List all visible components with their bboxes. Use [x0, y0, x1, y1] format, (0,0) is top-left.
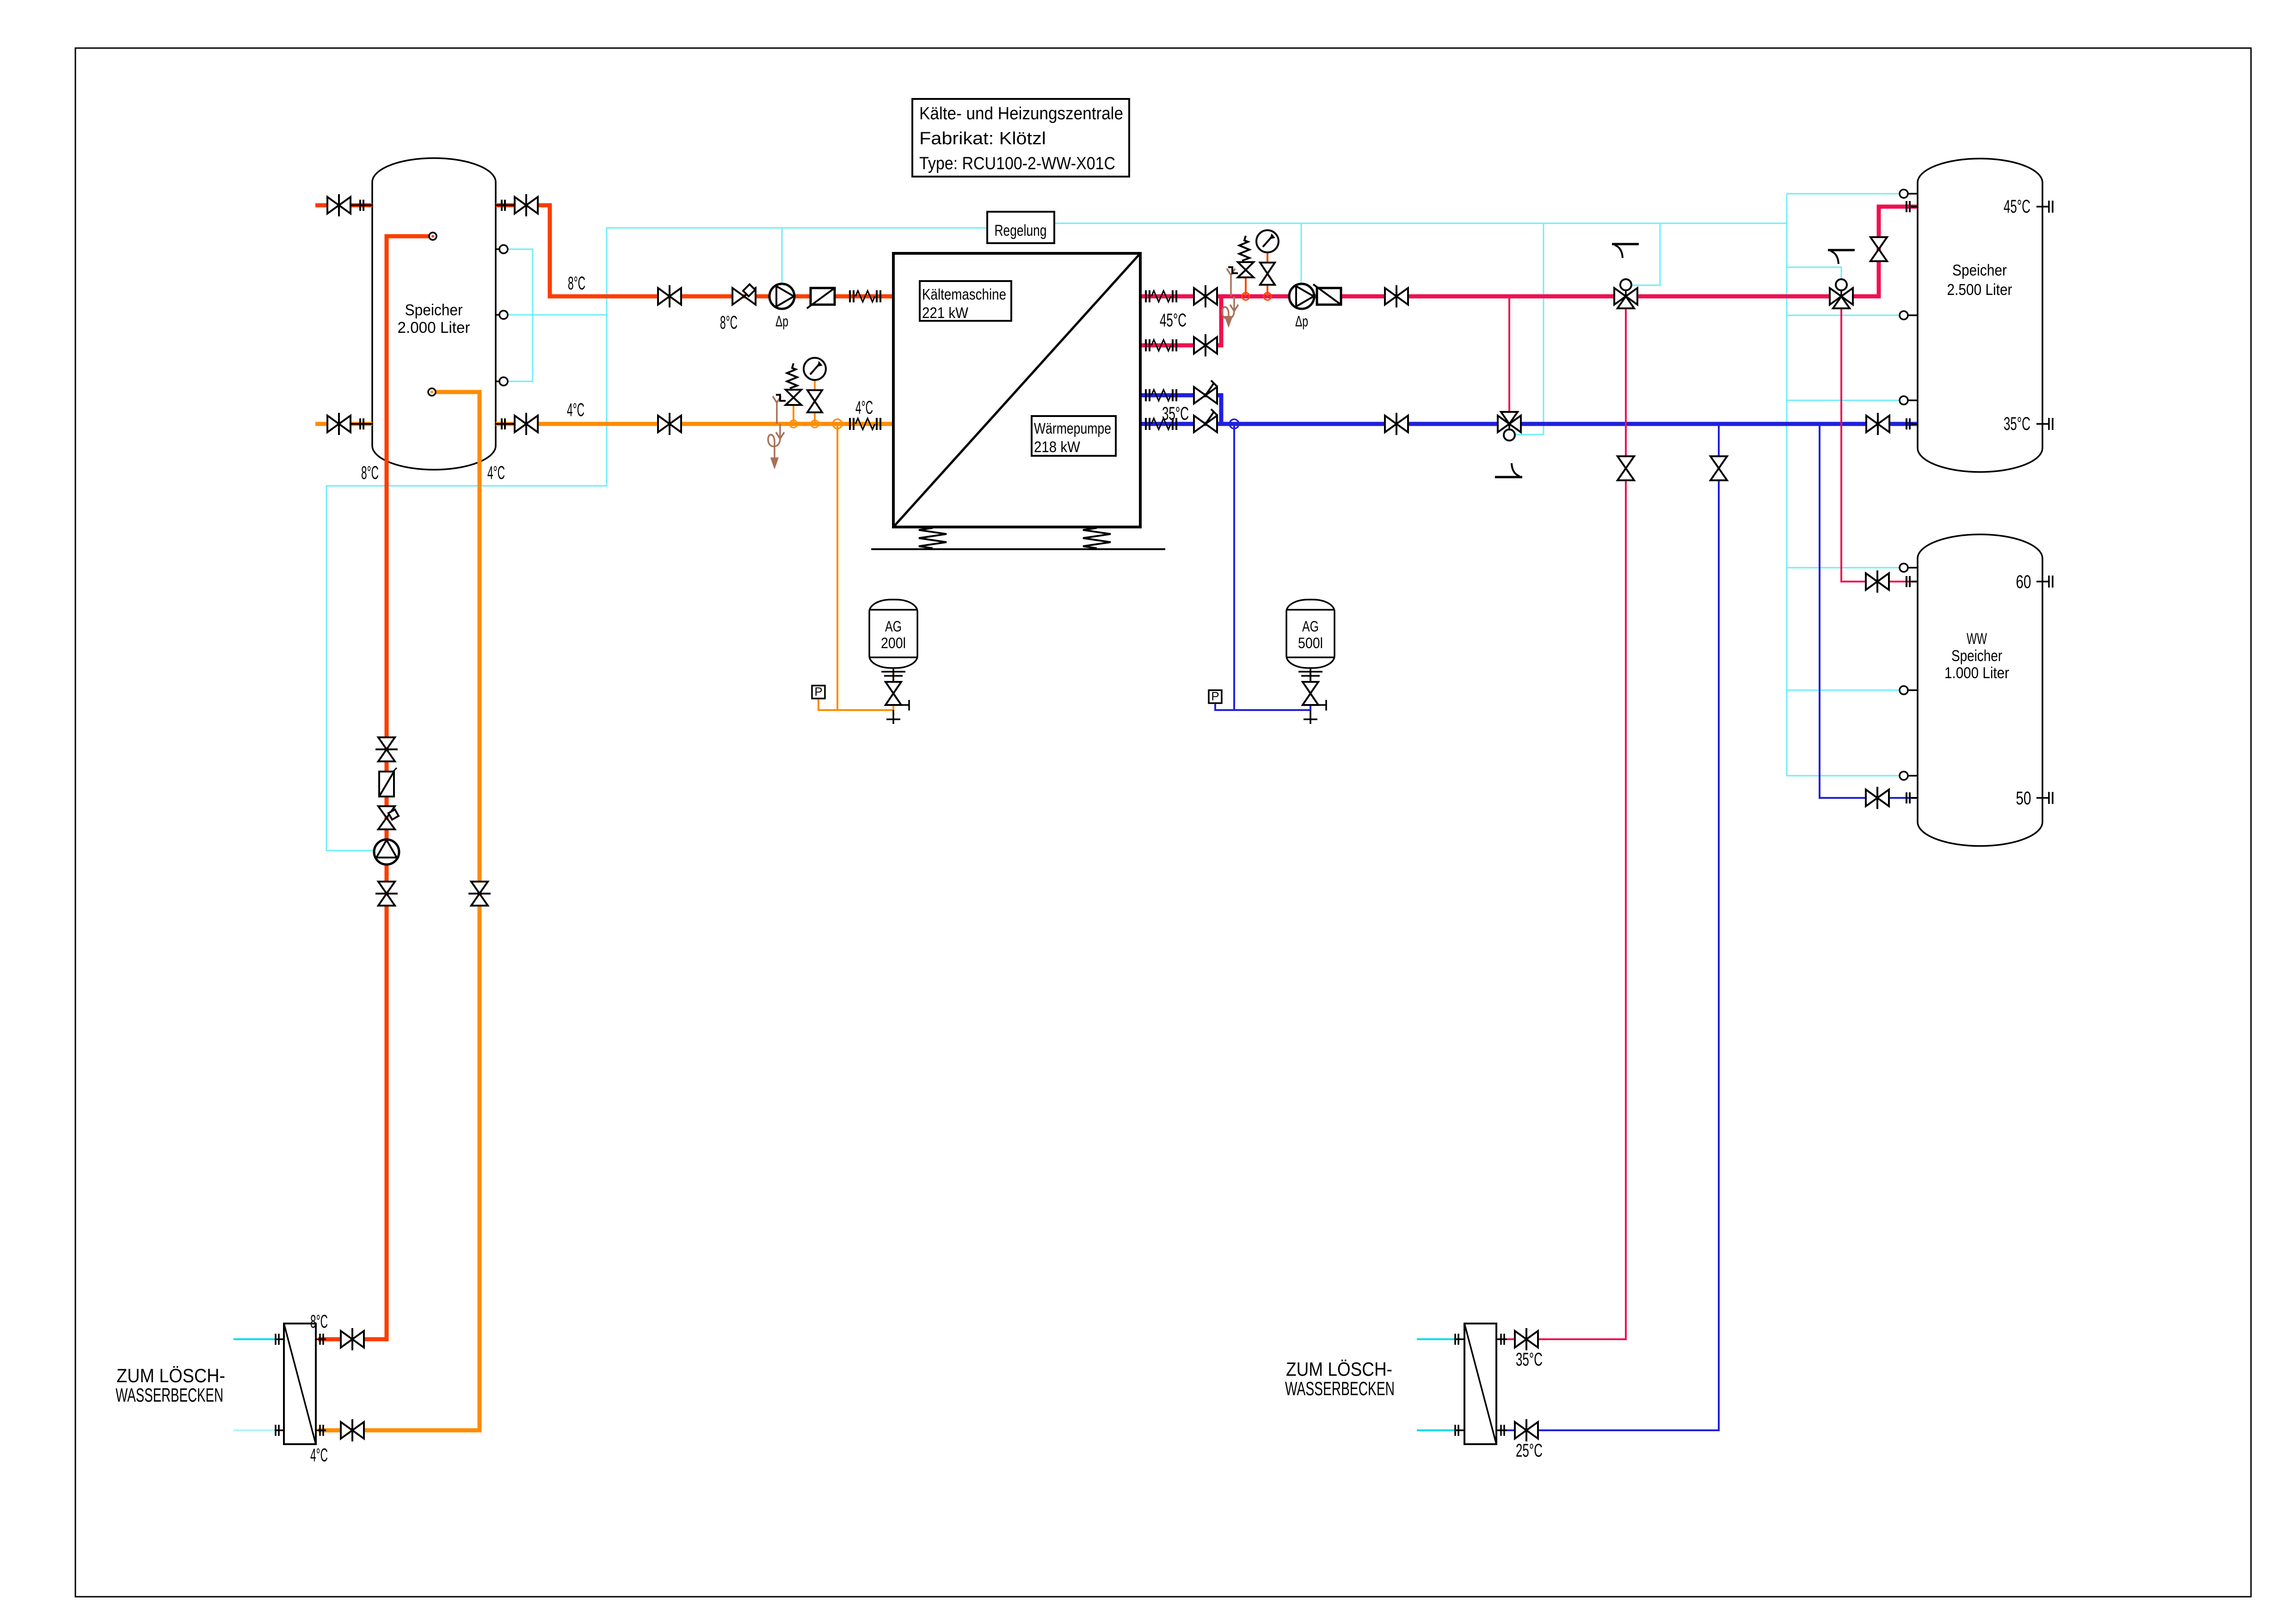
junction node on 4C line at AG200 drop: [833, 419, 842, 429]
svg-text:45°C: 45°C: [2004, 196, 2030, 217]
three-way valve crimson to heat exchanger drop: [1614, 288, 1637, 305]
svg-text:WASSERBECKEN: WASSERBECKEN: [1285, 1378, 1395, 1399]
junction node on blue line at AG500 drop: [1230, 419, 1239, 429]
vertical valve on 4C down pipe: [471, 882, 488, 906]
right HX bottom-right flange: [1496, 1429, 1507, 1431]
pipe 8C stub left of tank1: [315, 203, 372, 208]
control wire: Regelung to right side: [1054, 223, 1787, 224]
safety relief valve on 45C line: [1245, 277, 1247, 296]
valve WW 50 inlet: [1866, 790, 1889, 806]
tank1 sensor top: [496, 248, 508, 250]
svg-text:221 kW: 221 kW: [922, 304, 969, 321]
valve left HX bottom: [341, 1422, 364, 1439]
WW tank sensor bottom: [1900, 775, 1918, 777]
heat exchanger left ZUM LOESCHWASSERBECKEN: [284, 1324, 316, 1444]
svg-text:Speicher: Speicher: [1951, 647, 2002, 665]
stub cyan left heat exchanger bottom: [234, 1429, 282, 1431]
balancing valve on 8C line: [732, 288, 756, 305]
control wire to WW tank bottom sensor: [1787, 775, 1900, 777]
svg-text:8°C: 8°C: [720, 313, 738, 333]
pipe 4C tank1 to chiller: [496, 422, 893, 426]
control wire to tank1 middle sensor: [508, 314, 607, 316]
filter on 8C line: [811, 288, 835, 305]
control wire to tank2 top sensor: [1787, 193, 1900, 195]
vertical filter on 8C down pipe: [379, 772, 394, 797]
pump on 8C line: [769, 284, 794, 309]
AG500 connection break ticks: [1310, 668, 1311, 681]
three-way valve crimson at tank2 riser: [1830, 288, 1853, 305]
valve on 8C line: [658, 288, 681, 305]
flexible connector 8C at chiller: [849, 290, 851, 302]
tank1 internal pipe sensor circle top: [429, 233, 437, 240]
valve with lever 35C top: [1194, 387, 1217, 404]
Regelung control box: [987, 212, 1054, 243]
svg-text:25°C: 25°C: [1516, 1440, 1543, 1461]
left HX top-right flange: [316, 1338, 326, 1340]
right HX top-left flange: [1454, 1338, 1464, 1340]
tank2 35C inlet flange: [1906, 418, 1907, 429]
flexible connector 45C supply: [1145, 290, 1147, 302]
svg-text:4°C: 4°C: [855, 398, 873, 418]
control wire to tank2 bottom sensor: [1787, 400, 1900, 401]
svg-text:WASSERBECKEN: WASSERBECKEN: [116, 1384, 223, 1406]
safety relief valve on 4C line: [793, 405, 794, 424]
svg-text:45°C: 45°C: [1160, 310, 1187, 331]
AG500 drain arm: [1310, 704, 1326, 706]
pipe blue drop to WW tank 50: [1820, 424, 1917, 798]
tank1 sensor middle: [496, 314, 508, 316]
tank1 internal pipe sensor circle bottom: [428, 388, 436, 396]
valve left HX top: [341, 1331, 364, 1348]
stub cyan right heat exchanger bottom: [1417, 1429, 1463, 1431]
svg-text:ZUM LÖSCH-: ZUM LÖSCH-: [117, 1365, 225, 1386]
pipe blue drop to right heat exchanger: [1498, 424, 1719, 1430]
pipe 8C tank1 internal down to heat exchanger: [318, 236, 430, 1339]
svg-text:2.000 Liter: 2.000 Liter: [398, 319, 470, 337]
pipe 35C chiller top port riser: [893, 395, 1221, 424]
vertical valve on 8C down pipe: [378, 737, 395, 761]
tank1 sensor bottom: [496, 380, 508, 382]
right HX bottom-left flange: [1454, 1429, 1464, 1431]
tank2 45C right nozzle: [2036, 206, 2049, 208]
svg-text:218 kW: 218 kW: [1034, 438, 1081, 455]
svg-text:Wärmepumpe: Wärmepumpe: [1034, 420, 1111, 437]
tank body Speicher 2500 Liter: [1918, 159, 2042, 472]
pipe 45C chiller supply to tank2: [893, 207, 1917, 296]
valve on 4C line: [658, 416, 681, 432]
drain funnel on 45C line: [1230, 275, 1232, 296]
svg-text:Regelung: Regelung: [995, 222, 1047, 239]
svg-text:Fabrikat: Klötzl: Fabrikat: Klötzl: [919, 129, 1046, 148]
svg-text:4°C: 4°C: [567, 400, 584, 420]
valve right HX top: [1515, 1331, 1538, 1348]
valve with lever 35C bottom: [1194, 416, 1217, 432]
tank body Speicher 2000 Liter: [372, 158, 496, 470]
svg-text:8°C: 8°C: [310, 1311, 328, 1332]
control wire branch to crimson three-way actuator: [1632, 223, 1660, 285]
pipe 4C tank1 internal down to heat exchanger: [318, 392, 480, 1430]
control wire: tank1 top sensor to bottom sensor: [508, 249, 533, 381]
control wire to WW tank top sensor: [1787, 567, 1900, 569]
junction node gauge stem 4C line: [811, 420, 818, 428]
vertical balancing valve on 8C down pipe: [378, 806, 395, 829]
control wire to WW tank middle sensor: [1787, 690, 1900, 691]
valve 35C at tank2: [1866, 416, 1889, 432]
svg-text:2.500 Liter: 2.500 Liter: [1947, 281, 2012, 299]
left HX top-left flange: [275, 1338, 284, 1340]
tank2 45C inlet flange: [1906, 201, 1907, 212]
vertical pump on 8C down pipe: [374, 840, 399, 864]
pressure sensor P box right: [1209, 690, 1222, 703]
chiller heat pump unit box: [893, 253, 1140, 527]
svg-text:Kältemaschine: Kältemaschine: [922, 286, 1006, 303]
AG200 drain below: [892, 710, 894, 724]
vertical valve on crimson drop: [1617, 456, 1634, 480]
pipe crimson drop to WW tank 60: [1841, 305, 1917, 582]
filter on 45C line: [1317, 288, 1341, 305]
pipe crimson drop to right heat exchanger: [1498, 305, 1626, 1339]
left HX bottom-left flange: [275, 1429, 284, 1431]
pressure gauge on 45C line: [1267, 252, 1268, 296]
pressure sensor P box left: [812, 686, 825, 699]
flexible connector 35C bottom: [1145, 418, 1147, 430]
valve tank1 bottom-right: [496, 423, 515, 425]
valve tank1 top-left: [351, 204, 372, 206]
label box Waermepumpe 218 kW: [1032, 416, 1116, 456]
svg-text:1.000 Liter: 1.000 Liter: [1944, 664, 2009, 682]
pipe crimson branch to blue three-way valve: [1508, 296, 1510, 412]
svg-text:AG: AG: [885, 618, 902, 635]
swing symbol near tank2 riser: [1828, 249, 1855, 251]
AG200 connection break ticks: [892, 668, 894, 681]
ground line under chiller: [871, 548, 1165, 550]
left HX bottom-right flange: [316, 1429, 326, 1431]
control wire: Regelung to left sensors and pumps: [326, 228, 987, 851]
svg-text:60: 60: [2016, 572, 2031, 592]
junction node relief stem crimson line: [1242, 293, 1249, 300]
WW tank sensor top: [1900, 567, 1918, 569]
svg-text:8°C: 8°C: [361, 463, 379, 483]
svg-text:500l: 500l: [1298, 635, 1323, 651]
svg-text:P: P: [814, 685, 822, 699]
svg-text:50: 50: [2016, 788, 2031, 809]
valve on 45C line mid: [1385, 288, 1408, 305]
chiller diagonal: [893, 253, 1140, 527]
tank2 sensor bottom: [1900, 399, 1918, 401]
three-way valve blue line: [1498, 416, 1521, 432]
stub cyan left heat exchanger top: [234, 1338, 282, 1340]
tank body WW Speicher 1000 Liter: [1918, 534, 2042, 846]
pipe 35C chiller to tank2: [893, 422, 1917, 426]
control wire branch to dp pump: [1301, 223, 1302, 284]
svg-text:4°C: 4°C: [487, 463, 505, 483]
valve right HX bottom: [1515, 1422, 1538, 1439]
pipe 4C stub left of tank1: [315, 422, 372, 426]
svg-text:4°C: 4°C: [310, 1445, 328, 1465]
pipe 45C chiller return riser: [893, 296, 1221, 345]
vibration spring isolator right: [1083, 528, 1111, 548]
WW 50 right nozzle: [2036, 797, 2049, 799]
heat exchanger right ZUM LOESCHWASSERBECKEN: [1464, 1324, 1496, 1444]
control wire main riser right tanks: [1786, 194, 1788, 776]
pump on 45C line: [1289, 284, 1314, 309]
flexible connector 4C at chiller: [849, 418, 851, 430]
pipe 8C tank1 to chiller: [496, 205, 893, 296]
stub cyan right heat exchanger top: [1417, 1338, 1463, 1340]
expansion vessel AG 500l: [1286, 600, 1335, 668]
label box Kaeltemaschine 221 kW: [920, 281, 1011, 321]
swing symbol above crimson three-way: [1612, 243, 1639, 245]
AG200 drain arm: [893, 704, 909, 706]
svg-text:Speicher: Speicher: [1952, 262, 2007, 279]
vibration spring isolator left: [919, 528, 947, 548]
svg-text:Type: RCU100-2-WW-X01C: Type: RCU100-2-WW-X01C: [919, 154, 1115, 173]
control wire to tank2 middle sensor: [1787, 315, 1900, 316]
drain funnel on 4C line: [776, 403, 778, 424]
svg-text:Δp: Δp: [775, 313, 788, 330]
control wire branch to blue three-way actuator: [1515, 223, 1544, 435]
svg-text:ZUM LÖSCH-: ZUM LÖSCH-: [1286, 1358, 1392, 1380]
svg-text:WW: WW: [1967, 630, 1987, 648]
flexible connector 35C top: [1145, 389, 1147, 401]
junction node relief stem 4C line: [790, 420, 797, 428]
expansion vessel AG 200l: [869, 600, 917, 668]
valve WW 60 inlet: [1866, 573, 1889, 590]
control wire branch to tank2 three-way actuator: [1787, 267, 1841, 278]
svg-text:P: P: [1211, 689, 1219, 703]
valve below AG200: [886, 682, 901, 705]
svg-text:Kälte- und Heizungszentrale: Kälte- und Heizungszentrale: [919, 104, 1123, 123]
valve tank1 top-right: [496, 204, 515, 206]
junction node gauge stem crimson line: [1264, 293, 1271, 300]
WW tank sensor middle: [1900, 689, 1918, 691]
vertical valve on tank2 riser: [1870, 237, 1887, 261]
svg-text:AG: AG: [1302, 618, 1319, 635]
svg-text:200l: 200l: [881, 635, 906, 651]
valve 45C return: [1194, 337, 1217, 354]
right HX top-right flange: [1496, 1338, 1507, 1340]
title box Kaelte- und Heizungszentrale: [912, 99, 1129, 177]
svg-text:35°C: 35°C: [1516, 1349, 1543, 1370]
tank2 sensor middle: [1900, 314, 1918, 316]
svg-text:Δp: Δp: [1295, 313, 1308, 330]
pressure gauge on 4C line: [814, 380, 816, 424]
valve below AG500: [1303, 682, 1318, 705]
svg-text:35°C: 35°C: [2004, 414, 2030, 434]
flexible connector 45C return: [1145, 339, 1147, 351]
control wire branch to 8C pump: [781, 228, 783, 284]
AG500 drain below: [1310, 710, 1311, 724]
pipe 4C expansion vessel AG200 connection: [836, 424, 838, 710]
valve tank1 bottom-left: [351, 423, 372, 425]
svg-text:35°C: 35°C: [1162, 404, 1189, 424]
pipe blue expansion vessel AG500 connection: [1233, 424, 1235, 710]
valve on blue line mid: [1385, 416, 1408, 432]
tank2 sensor top: [1900, 193, 1918, 195]
vertical valve2 on 8C down pipe: [378, 882, 395, 906]
vertical valve on blue drop: [1710, 456, 1727, 480]
valve 45C supply: [1194, 288, 1217, 305]
swing symbol below blue three-way: [1495, 476, 1522, 478]
svg-text:Speicher: Speicher: [405, 301, 463, 319]
tank2 35C right nozzle: [2036, 423, 2049, 425]
WW 60 right nozzle: [2036, 581, 2049, 582]
svg-text:8°C: 8°C: [568, 273, 585, 294]
